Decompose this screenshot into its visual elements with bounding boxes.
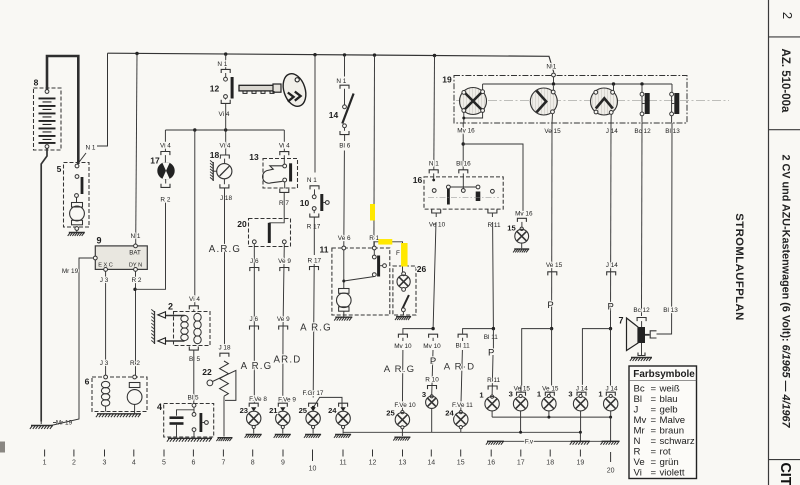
svg-text:8: 8 — [34, 78, 39, 88]
label N1 12 — [217, 61, 227, 68]
label Bl6 — [339, 142, 350, 149]
box 11 R1 pin — [372, 246, 376, 250]
lamp 25b label — [386, 409, 395, 418]
box 20 bar — [268, 223, 271, 243]
terminal 14 — [427, 450, 435, 467]
lamp 25 — [304, 403, 321, 438]
label J14 mid — [606, 262, 619, 269]
box 11 label — [320, 245, 329, 255]
regulator left pin — [93, 256, 97, 260]
wire N1 to regulator — [136, 54, 137, 245]
svg-text:=: = — [651, 394, 657, 405]
item 22 label — [202, 367, 212, 377]
svg-text:Vi 4: Vi 4 — [279, 143, 290, 150]
connector 16 N1 — [429, 170, 438, 174]
connector 17 top — [161, 152, 170, 156]
label ARG left2 — [384, 364, 416, 375]
label J14 lamp1 — [605, 386, 618, 393]
label J14 lamp3 — [576, 386, 589, 393]
terminal 11 — [339, 450, 346, 467]
terminal 12 — [369, 450, 377, 467]
battery top terminal — [45, 90, 49, 94]
svg-text:N 1: N 1 — [217, 61, 227, 68]
suppressor Bl13 — [670, 84, 680, 123]
label Bl5 lower — [187, 394, 198, 401]
box 11 ground — [334, 311, 352, 320]
wire line A — [492, 416, 610, 418]
svg-text:11: 11 — [339, 460, 346, 467]
item 13 contact bar — [289, 163, 292, 181]
svg-text:Mv: Mv — [634, 415, 647, 426]
svg-text:AR.D: AR.D — [274, 355, 302, 366]
svg-text:Vi: Vi — [634, 468, 642, 479]
wire J3 — [105, 271, 107, 375]
node feed hl2 — [552, 82, 555, 85]
svg-text:14: 14 — [427, 460, 435, 467]
lamp 21 — [274, 403, 291, 438]
label Mr19 at ground — [56, 420, 73, 427]
label Ve10 — [429, 222, 446, 229]
wire 14 to Ve6 — [343, 135, 346, 246]
ground Fv mid — [570, 441, 590, 444]
svg-text:N: N — [634, 436, 641, 447]
terminal 7 — [221, 450, 225, 467]
wire Bc12 — [641, 123, 644, 316]
defs hatch — [0, 0, 1, 1]
label Mv16 15 — [515, 211, 533, 218]
lamp 24b — [454, 411, 468, 433]
wire J6 — [253, 244, 255, 404]
svg-text:Ve: Ve — [634, 457, 645, 468]
node Bl11 — [492, 327, 495, 330]
lamp 15 ground — [513, 249, 529, 252]
svg-text:1: 1 — [43, 460, 47, 467]
label Bl13 19 — [665, 128, 680, 135]
svg-text:braun: braun — [660, 426, 685, 437]
node lineB 580 — [579, 431, 582, 434]
terminal 16 — [487, 450, 495, 467]
svg-text:P: P — [430, 356, 436, 367]
svg-text:J 14: J 14 — [606, 128, 619, 135]
wire bus to 14 — [344, 55, 346, 77]
wire Fv ground line — [487, 440, 619, 442]
svg-text:20: 20 — [237, 219, 247, 229]
svg-text:R 11: R 11 — [487, 377, 500, 384]
box 11 contact — [344, 250, 387, 281]
label Bc12 19 — [634, 128, 651, 135]
connector 12 bottom — [221, 100, 230, 104]
wire Mv16 branch — [463, 144, 523, 212]
wire to lamp1a — [492, 329, 493, 396]
starter ground — [68, 227, 85, 236]
terminal 20 — [607, 452, 615, 475]
svg-text:N 1: N 1 — [336, 78, 346, 85]
svg-text:Vi 4: Vi 4 — [219, 111, 230, 118]
node R17 branch — [312, 406, 315, 409]
item 13 label — [249, 152, 259, 162]
svg-text:Bl 11: Bl 11 — [484, 334, 499, 341]
box 20 pins — [252, 240, 286, 244]
coil 2 label — [168, 302, 173, 312]
svg-text:Ve 10: Ve 10 — [429, 222, 446, 229]
node feed bc12 — [640, 82, 643, 85]
node lineB 520 — [519, 431, 522, 434]
svg-text:N 1: N 1 — [546, 64, 556, 71]
item 4 capacitor — [170, 410, 195, 437]
wire N1 to 16 — [433, 56, 436, 170]
connector Bl11 left — [458, 334, 467, 338]
horn 7 body — [627, 318, 646, 351]
svg-text:rot: rot — [660, 447, 672, 458]
connector 16 Ve10 — [432, 209, 441, 213]
headlamp 2 — [530, 88, 557, 115]
wire to lamp25b — [401, 338, 404, 411]
label FVe9 — [278, 397, 296, 404]
box 20 label — [237, 219, 247, 229]
svg-text:P: P — [547, 300, 553, 311]
svg-text:2: 2 — [72, 460, 76, 467]
svg-text:J 3: J 3 — [100, 360, 109, 367]
svg-text:26: 26 — [417, 264, 427, 274]
wire Ve15 main — [549, 329, 552, 396]
node bus-16 — [433, 54, 436, 57]
node bus-sw10 — [313, 53, 316, 56]
lamp 1a — [485, 395, 499, 417]
svg-text:24: 24 — [445, 409, 454, 418]
wire coil2 to 4 — [193, 309, 195, 403]
svg-text:10: 10 — [300, 198, 310, 208]
svg-text:15: 15 — [457, 460, 465, 467]
wire R11 — [492, 213, 493, 329]
svg-text:R 17: R 17 — [307, 223, 321, 230]
wire to lamp3a — [432, 338, 433, 396]
terminal 17 — [517, 450, 525, 467]
wire to lamp24b — [461, 338, 463, 411]
label R7 — [279, 200, 289, 207]
lamp 24b label — [445, 409, 454, 418]
label R11 low — [487, 377, 500, 384]
terminal 10 — [309, 450, 317, 473]
label ARG 2 — [300, 323, 332, 334]
svg-text:=: = — [651, 383, 657, 394]
label FV — [396, 250, 407, 257]
svg-text:F.Ve 11: F.Ve 11 — [452, 402, 473, 409]
wire Vi4 to coil2 — [194, 130, 196, 306]
label Bl11 right — [484, 334, 499, 341]
connector Mv10 left — [398, 334, 407, 338]
svg-text:Vi 4: Vi 4 — [189, 296, 200, 303]
bus into 19 — [552, 73, 556, 84]
label Vi4 12 — [219, 111, 230, 118]
svg-text:schwarz: schwarz — [660, 436, 695, 447]
headlamp 2 leads — [552, 86, 553, 123]
wire Bl16 — [462, 123, 464, 170]
lamp 24 — [334, 403, 351, 438]
wire Bl13 — [657, 123, 673, 334]
switch 14 blade — [342, 89, 353, 131]
switch 12 contacts — [224, 73, 234, 100]
lamp 23 — [245, 403, 262, 438]
connector 16 R11 — [488, 209, 497, 213]
svg-text:16: 16 — [487, 460, 495, 467]
connector 10 top — [310, 186, 319, 190]
starter top pin — [75, 164, 79, 168]
svg-text:23: 23 — [240, 406, 248, 415]
svg-text:21: 21 — [269, 406, 278, 415]
svg-text:15: 15 — [507, 224, 516, 233]
lamp 3a — [426, 395, 438, 433]
wire 18 to 22 — [223, 179, 225, 351]
wire Bl11 branch — [463, 329, 494, 334]
svg-text:Bl 13: Bl 13 — [663, 307, 678, 314]
svg-text:J 18: J 18 — [218, 344, 231, 351]
connector Ve15 lamp1 — [545, 392, 554, 396]
svg-text:Ve 15: Ve 15 — [546, 262, 563, 269]
lamp 1b label — [537, 390, 542, 399]
headlamp 3 leads — [611, 84, 614, 123]
svg-text:F.Ve 9: F.Ve 9 — [278, 397, 296, 404]
label Mv10 left — [394, 343, 412, 350]
svg-text:R 17: R 17 — [308, 257, 322, 264]
starter contact — [75, 175, 84, 198]
wire 18 — [225, 130, 227, 155]
connector J14 lamp1 — [606, 392, 615, 396]
svg-text:J: J — [634, 404, 639, 415]
svg-text:STROMLAUFPLAN: STROMLAUFPLAN — [733, 213, 745, 321]
label J3 upper — [100, 277, 109, 284]
box 19 feed line — [483, 83, 672, 85]
regulator 9 label — [96, 236, 101, 246]
svg-text:Bc 12: Bc 12 — [634, 128, 651, 135]
node Vi4-coil2 — [193, 128, 196, 131]
item 13 box — [263, 159, 298, 189]
item 13 hook — [263, 166, 283, 183]
connector 12 top — [221, 69, 230, 73]
svg-text:25: 25 — [299, 406, 308, 415]
label Mv10 right — [423, 343, 441, 350]
svg-text:Bl 5: Bl 5 — [189, 356, 200, 363]
wire J14 main — [610, 329, 612, 386]
sidebar divider 1 — [769, 36, 800, 38]
resistor 22 — [220, 361, 229, 396]
svg-text:Ve 9: Ve 9 — [277, 316, 290, 323]
svg-text:25: 25 — [386, 409, 395, 418]
svg-text:violett: violett — [660, 468, 685, 479]
wire R7 to 20 — [269, 192, 284, 222]
connector 18 top — [220, 155, 229, 159]
legend Farbsymbole — [629, 366, 697, 479]
svg-text:J 6: J 6 — [250, 258, 259, 265]
switch 26 — [402, 295, 409, 315]
connector J14 lamp3 — [577, 392, 586, 396]
item 4 label — [157, 402, 162, 412]
regulator BAT text — [129, 249, 141, 256]
label R2 17 — [160, 196, 170, 203]
coil 2 box — [174, 312, 211, 346]
label R2 upper — [132, 277, 142, 284]
wire Ve10 — [433, 213, 436, 329]
svg-text:14: 14 — [329, 110, 339, 120]
box 11 — [332, 248, 390, 315]
label FVe8 — [249, 396, 267, 403]
dynamo 6 dashed box — [92, 377, 147, 412]
label N1 10 — [307, 177, 317, 184]
svg-text:=: = — [651, 426, 657, 437]
wire J14 — [610, 123, 613, 329]
svg-text:=: = — [651, 447, 657, 458]
lamp 23 label — [240, 406, 248, 415]
connector Mv10 right — [429, 334, 438, 338]
label Bl13 low — [663, 307, 678, 314]
svg-text:weiß: weiß — [659, 383, 680, 394]
label ARD right — [444, 361, 476, 372]
terminal 19 — [577, 450, 585, 467]
svg-text:17: 17 — [517, 460, 525, 467]
svg-text:blau: blau — [660, 394, 678, 405]
lamp 1a label — [479, 391, 484, 400]
wire Vi4 line — [165, 129, 284, 131]
lamp 1c — [604, 394, 618, 417]
sidebar page number — [780, 12, 795, 19]
terminal 1 — [43, 450, 47, 467]
wire R2 — [135, 271, 137, 375]
regulator BAT pin — [134, 244, 138, 248]
label J18 22 — [218, 344, 231, 357]
ground 26 — [395, 317, 411, 320]
regulator EXC text — [98, 262, 113, 268]
label J14 19 — [606, 128, 619, 135]
label R2 lower — [130, 360, 140, 367]
box 19 label — [442, 75, 452, 85]
svg-text:5: 5 — [162, 460, 166, 467]
lamp 24 label — [328, 406, 337, 415]
node J14 — [609, 327, 612, 330]
terminal 2 — [72, 450, 76, 467]
box 16 label — [413, 175, 423, 185]
wire 22 down — [223, 396, 225, 436]
lamp 3a label — [422, 390, 426, 399]
svg-text:5: 5 — [57, 164, 62, 174]
lamp 3c label — [568, 390, 572, 399]
terminal 3 — [103, 450, 107, 467]
svg-text:19: 19 — [442, 75, 452, 85]
starter motor — [70, 198, 85, 225]
connector J6 upper — [250, 268, 259, 272]
node feed hl3 — [612, 82, 615, 85]
node 11 junction — [342, 280, 345, 283]
svg-text:N 1: N 1 — [307, 177, 317, 184]
label FGr17 — [303, 390, 324, 397]
lamp 26 — [397, 267, 410, 292]
terminal 18 — [546, 450, 554, 467]
svg-text:N 1: N 1 — [429, 161, 439, 168]
box 11 motor wire — [343, 250, 345, 289]
terminal 9 — [281, 450, 285, 467]
svg-text:Bl 6: Bl 6 — [339, 142, 350, 149]
svg-text:R 2: R 2 — [130, 360, 140, 367]
label Vi4 coil2 — [189, 296, 200, 303]
svg-text:=: = — [651, 415, 657, 426]
label R17 lower — [308, 257, 322, 264]
svg-text:Vi 4: Vi 4 — [160, 142, 171, 149]
scan mark — [0, 442, 5, 453]
wire R1 — [373, 55, 376, 246]
svg-text:R: R — [634, 447, 641, 458]
ground Fv left — [486, 441, 504, 444]
label J18 18 — [220, 195, 233, 202]
lamp 3b — [513, 394, 527, 432]
ignition key — [239, 71, 310, 110]
label FVe11 — [452, 402, 473, 409]
svg-text:Mr 19: Mr 19 — [56, 420, 73, 427]
dynamo motor — [106, 383, 142, 414]
wire R17 — [313, 217, 314, 397]
highlight R1 wire — [370, 204, 375, 221]
highlight R1-FV — [378, 239, 392, 245]
wire 12 to Vi4 line — [225, 103, 227, 130]
connector 15 — [517, 218, 526, 222]
connector 14 bottom — [340, 131, 349, 135]
box 26 — [393, 266, 416, 315]
terminal 15 — [457, 450, 465, 467]
connector horn top — [637, 318, 646, 328]
svg-text:4: 4 — [157, 402, 162, 412]
sidebar border — [768, 0, 770, 485]
svg-text:10: 10 — [309, 466, 317, 473]
svg-text:P: P — [608, 302, 614, 313]
svg-text:2: 2 — [780, 12, 795, 19]
svg-text:N 1: N 1 — [131, 233, 141, 240]
label J6 upper — [250, 258, 259, 265]
wire to 17 — [164, 130, 166, 151]
lamp 25 label — [299, 406, 308, 415]
svg-text:6: 6 — [191, 460, 195, 467]
label FVe10 — [394, 402, 416, 409]
svg-text:J 14: J 14 — [606, 262, 619, 269]
wire Mr19 — [51, 258, 93, 426]
connector coil2 bottom — [189, 347, 198, 351]
lamp 15 label — [507, 224, 516, 233]
label Ve15 lamp1 — [542, 386, 559, 393]
lamp 25b — [395, 411, 409, 437]
svg-text:19: 19 — [577, 460, 585, 467]
svg-text:Bl 11: Bl 11 — [456, 342, 471, 349]
wire N1 to starter — [78, 53, 108, 163]
connector Ve15 lamp3 — [517, 386, 526, 396]
svg-text:R 1: R 1 — [369, 235, 379, 242]
lamp 1c label — [598, 390, 603, 399]
svg-text:Malve: Malve — [660, 415, 686, 426]
svg-text:7: 7 — [618, 316, 623, 326]
headlamp 1 — [460, 88, 487, 115]
connector 13 top — [280, 152, 289, 156]
svg-text:17: 17 — [150, 156, 160, 166]
svg-text:=: = — [651, 457, 657, 468]
label Ve15 mid — [546, 262, 563, 269]
wire bus to 10 — [314, 55, 316, 173]
svg-text:12: 12 — [369, 460, 377, 467]
svg-text:3: 3 — [509, 390, 513, 399]
terminal 5 — [162, 450, 166, 467]
wire Ve15 — [551, 123, 553, 329]
horn ground — [630, 343, 652, 361]
node bus-sw12 — [224, 52, 227, 55]
label Bl11 left — [456, 342, 471, 349]
connector 14 top — [340, 85, 349, 89]
svg-text:13: 13 — [399, 460, 407, 467]
ground main — [30, 422, 53, 429]
connector 18 bottom — [220, 184, 229, 188]
